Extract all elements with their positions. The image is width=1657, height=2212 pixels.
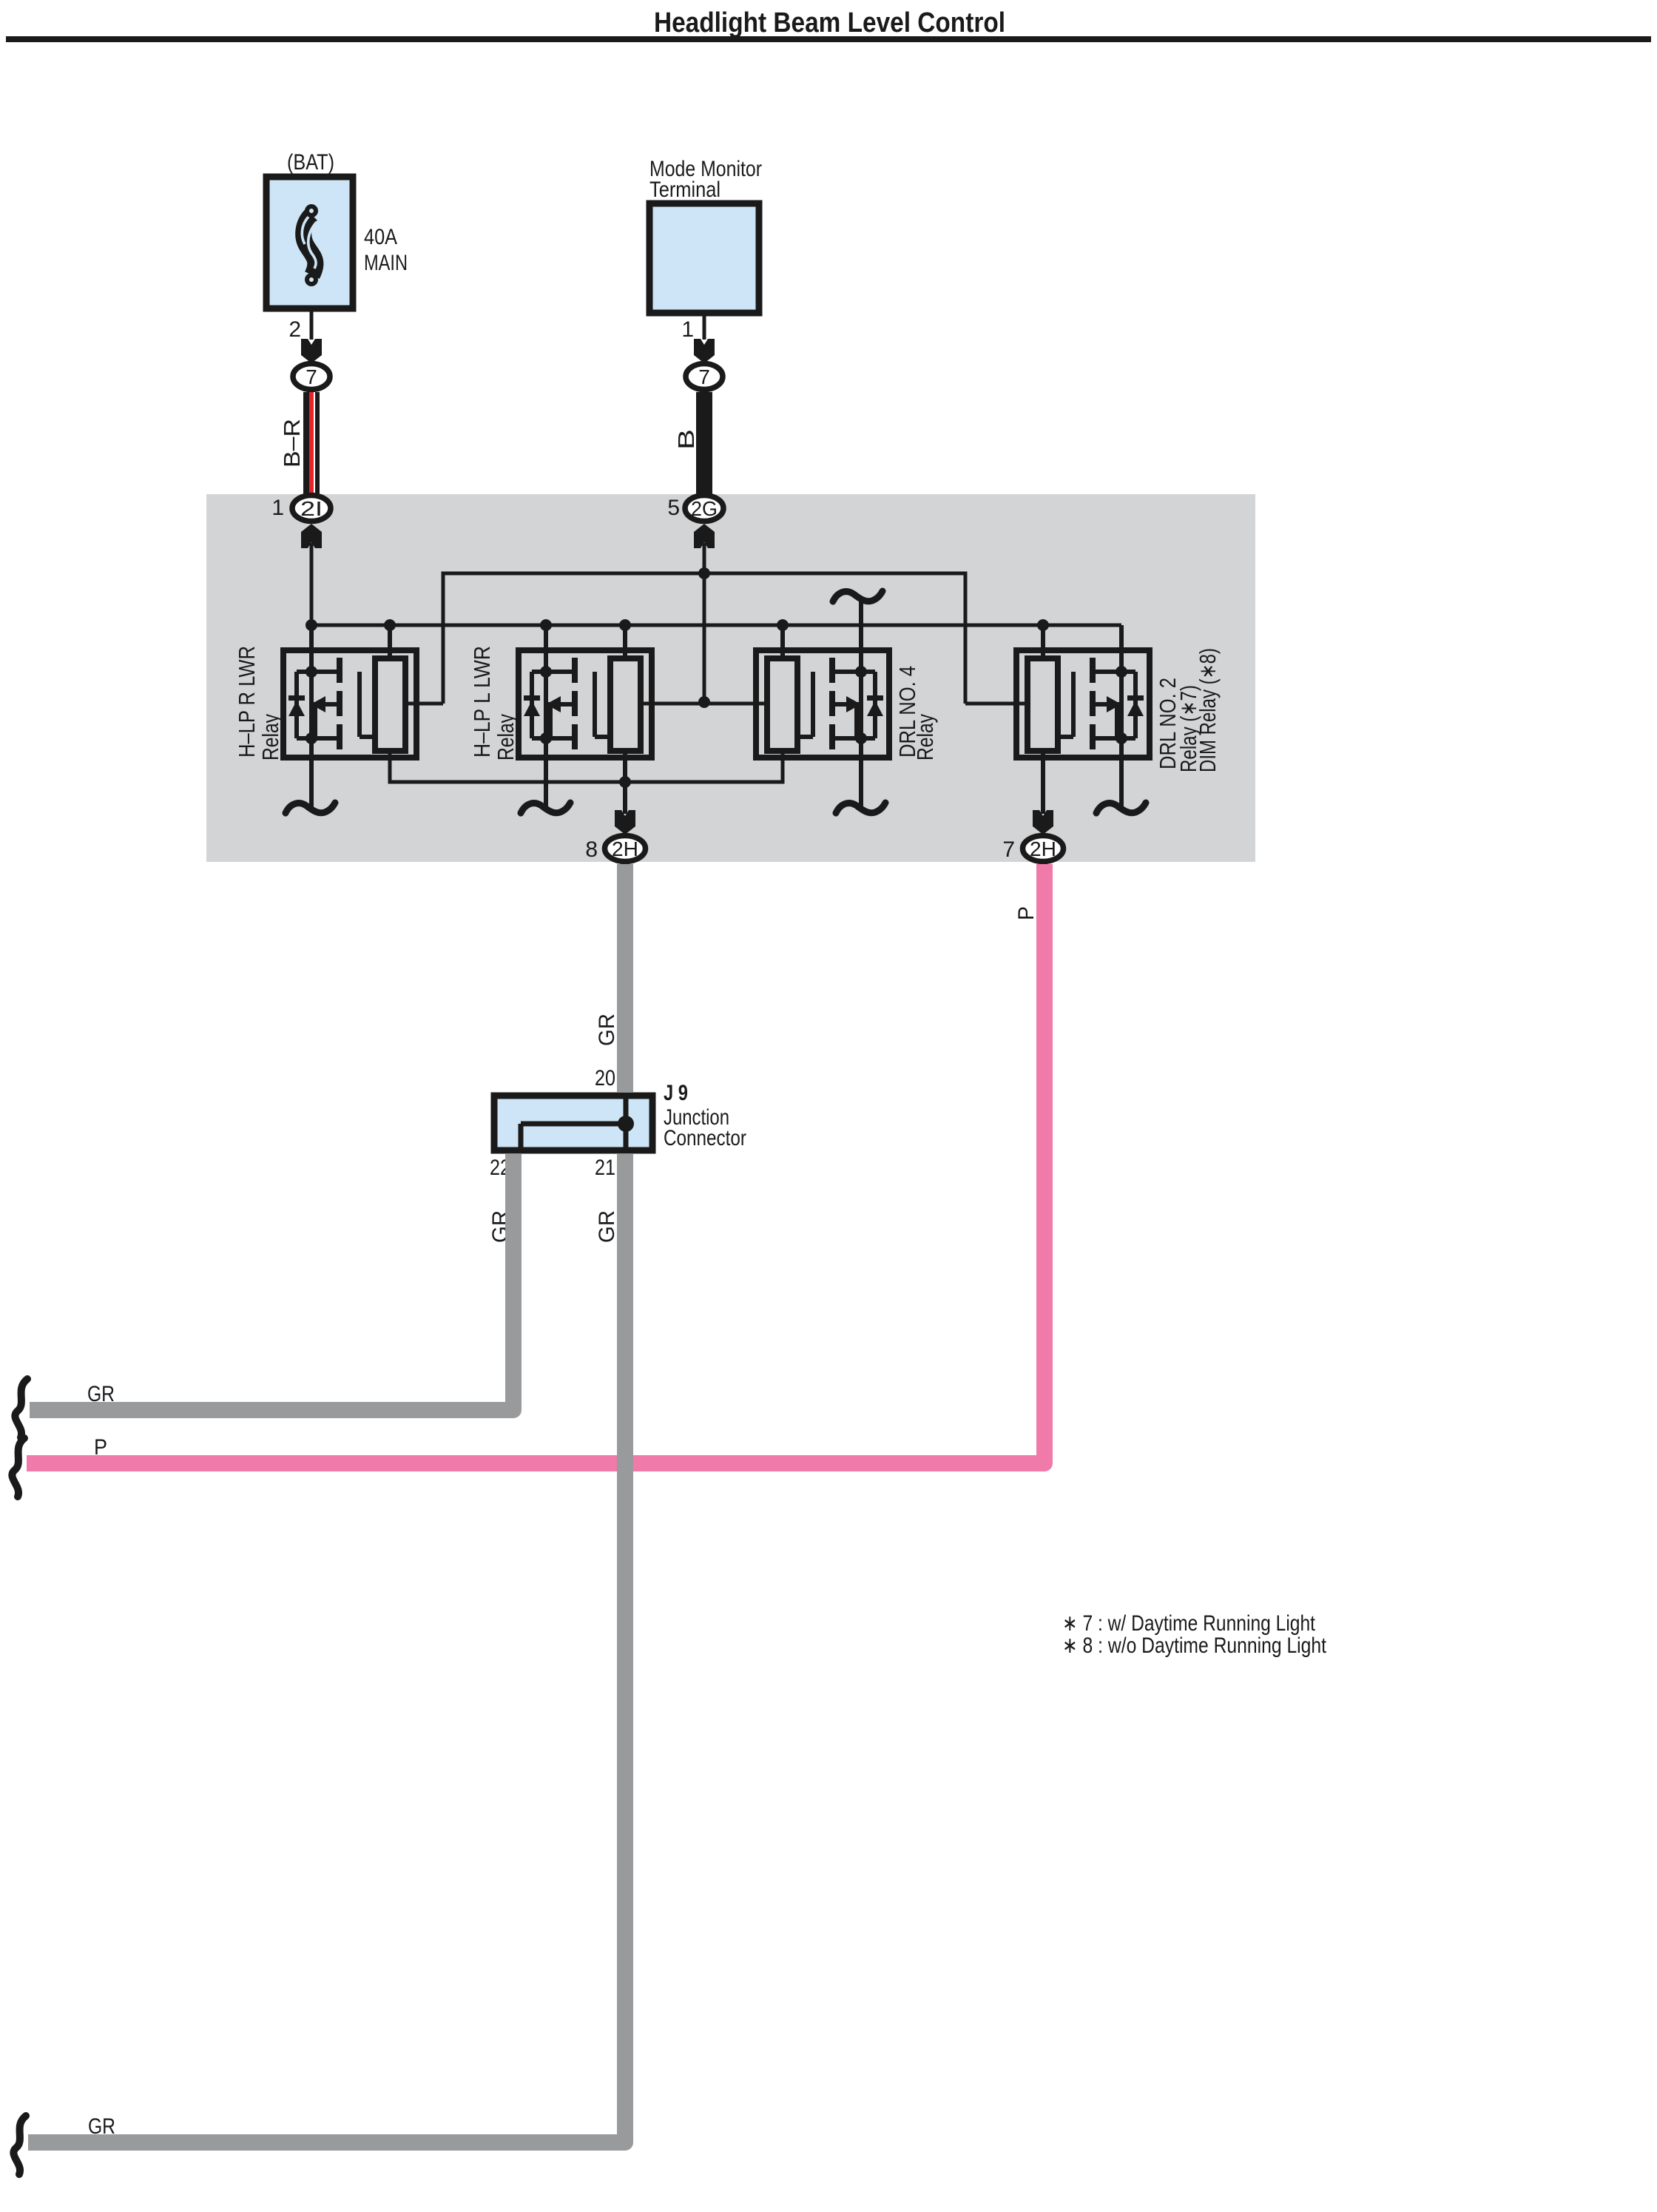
svg-text:P: P xyxy=(1014,906,1039,920)
svg-text:Relay: Relay xyxy=(257,714,283,761)
relay4 diode branch xyxy=(1133,672,1138,738)
J9 internal bus xyxy=(624,1096,629,1150)
svg-text:Terminal: Terminal xyxy=(649,178,720,202)
resistor relay2 coil xyxy=(610,658,641,751)
svg-text:∗ 7 : w/ Daytime Running Light: ∗ 7 : w/ Daytime Running Light xyxy=(1062,1611,1316,1636)
wire riser to relay1 resistor xyxy=(405,702,443,706)
node relay4 dots xyxy=(1116,666,1127,678)
svg-text:7: 7 xyxy=(698,365,710,388)
wire resistor top xyxy=(623,625,627,658)
relay4 transistor drain/source bars xyxy=(1093,670,1135,674)
mode monitor terminal box xyxy=(649,203,759,313)
svg-text:Headlight Beam Level Control: Headlight Beam Level Control xyxy=(654,7,1005,38)
resistor relay4 coil xyxy=(1027,658,1058,751)
junction connector J9 box xyxy=(494,1096,652,1150)
break squiggle relay1 xyxy=(286,803,335,813)
relay H-LP R LWR box xyxy=(283,625,416,811)
relay3 mosfet arrow xyxy=(846,696,861,712)
connector oval 2H (pin 7) xyxy=(1023,836,1064,862)
svg-text:H–LP R LWR: H–LP R LWR xyxy=(234,646,260,758)
svg-text:Relay: Relay xyxy=(912,714,938,761)
resistor relay1 coil xyxy=(375,658,405,751)
break squiggle P left xyxy=(12,1438,24,1497)
wire drop to relay4 resistor xyxy=(965,702,1027,706)
fuse 40A MAIN box xyxy=(266,177,353,308)
svg-text:Connector: Connector xyxy=(664,1126,746,1150)
relay3 gate xyxy=(811,672,815,737)
wire fuse pin 2 xyxy=(310,308,314,340)
connector oval 7 (mode monitor) xyxy=(686,364,723,390)
break squiggle relay3 bottom xyxy=(836,803,885,813)
connector oval 2G xyxy=(685,496,723,522)
relay2 source arrow wire xyxy=(558,702,575,707)
relay4 diode xyxy=(1127,701,1144,716)
svg-text:GR: GR xyxy=(595,1014,619,1046)
relay3 source arrow wire xyxy=(832,702,848,707)
svg-text:2I: 2I xyxy=(300,497,323,520)
wire GR from 2H pin8 to J9 pin 20 xyxy=(617,864,633,1092)
svg-text:MAIN: MAIN xyxy=(364,251,408,275)
node J9 junction xyxy=(618,1116,634,1132)
relay DRL NO. 2 box xyxy=(1016,625,1150,814)
wire resistor top xyxy=(780,625,785,658)
wire relay2 to relay3 gate link xyxy=(641,702,767,706)
relay3 diode branch xyxy=(873,672,877,738)
relay3 transistor channel xyxy=(829,658,835,683)
wire resistor top xyxy=(388,625,392,658)
title rule xyxy=(6,36,1651,42)
arrow up from 2G xyxy=(694,524,715,548)
node bus junctions xyxy=(306,619,317,631)
svg-text:B–R: B–R xyxy=(279,419,305,468)
svg-text:GR: GR xyxy=(87,1382,115,1406)
svg-text:GR: GR xyxy=(595,1210,619,1243)
connector oval 2I xyxy=(292,496,331,522)
svg-text:(BAT): (BAT) xyxy=(287,150,334,175)
relay4 transistor channel xyxy=(1090,658,1096,683)
wire lower bus xyxy=(390,751,783,782)
relay2 mosfet arrow xyxy=(546,696,561,712)
svg-text:2H: 2H xyxy=(1030,837,1056,860)
arrow down to 2H (pin 8) xyxy=(615,810,635,834)
wire P (pink) from 2H pin7 xyxy=(27,864,1045,1463)
break squiggle relay4 xyxy=(1096,803,1146,813)
relay2 gate xyxy=(593,672,597,737)
arrow down to connector 7 xyxy=(301,339,322,363)
node relay3 dots xyxy=(855,666,867,678)
break squiggle GR left xyxy=(15,1379,27,1437)
wire from 2G down xyxy=(703,543,706,702)
svg-text:8: 8 xyxy=(585,837,598,862)
relay1 transistor drain/source bars xyxy=(297,670,340,674)
relay2 diode branch xyxy=(530,672,534,738)
wire mode monitor pin 1 xyxy=(703,313,706,340)
wire main bus xyxy=(311,624,1121,627)
wire relay2 main line xyxy=(544,625,548,811)
svg-text:21: 21 xyxy=(595,1156,615,1180)
fuse element symbol xyxy=(302,206,317,284)
break squiggle relay2 xyxy=(521,803,570,813)
relay1 diode branch xyxy=(294,672,299,738)
svg-text:2: 2 xyxy=(288,317,301,342)
wire relay1 main line xyxy=(309,625,314,811)
svg-text:DIM Relay (∗8): DIM Relay (∗8) xyxy=(1195,648,1221,772)
relay3 diode xyxy=(867,701,883,716)
break squiggle relay3 top xyxy=(833,591,883,601)
svg-text:5: 5 xyxy=(667,496,680,520)
arrow down to 2H (pin 7) xyxy=(1033,810,1053,834)
wire resistor top xyxy=(1041,625,1045,658)
relay H-LP L LWR box xyxy=(519,625,652,814)
relay1 transistor channel xyxy=(337,658,342,683)
relay4 mosfet arrow xyxy=(1107,696,1121,712)
relay4 source arrow wire xyxy=(1093,702,1109,707)
wire relay3 main line xyxy=(859,601,863,811)
relay assembly shaded box xyxy=(206,494,1255,862)
wire resistor bottom to 2H xyxy=(1041,751,1045,814)
svg-text:7: 7 xyxy=(306,365,317,388)
svg-text:∗ 8 : w/o Daytime Running Ligh: ∗ 8 : w/o Daytime Running Light xyxy=(1062,1633,1327,1658)
relay2 diode xyxy=(524,701,540,716)
relay DRL NO. 4 box xyxy=(756,601,889,811)
arrow down to connector 7 xyxy=(694,339,715,363)
wire GR from J9 pin 21 xyxy=(28,1154,625,2142)
relay2 transistor drain/source bars xyxy=(532,670,575,674)
svg-text:J 9: J 9 xyxy=(664,1081,688,1105)
relay1 source arrow wire xyxy=(323,702,340,707)
break squiggle GR bottom xyxy=(13,2116,26,2174)
svg-text:1: 1 xyxy=(681,317,694,342)
wire GR from J9 pin 22 xyxy=(30,1154,513,1410)
svg-text:H–LP L LWR: H–LP L LWR xyxy=(469,646,495,758)
connector oval 7 (fuse) xyxy=(293,364,330,390)
svg-text:1: 1 xyxy=(271,496,284,520)
svg-text:20: 20 xyxy=(595,1066,615,1090)
resistor relay3 coil xyxy=(767,658,797,751)
svg-text:40A: 40A xyxy=(364,225,397,249)
svg-text:2G: 2G xyxy=(691,497,718,520)
svg-text:B: B xyxy=(673,429,699,450)
node relay1 dots xyxy=(306,666,317,678)
relay1 diode xyxy=(288,701,305,716)
svg-text:7: 7 xyxy=(1002,837,1015,862)
relay4 gate xyxy=(1071,672,1076,737)
wire resistor bottom to 2H xyxy=(623,751,627,814)
wire B-R (black with red stripe) xyxy=(303,392,320,493)
svg-text:Relay: Relay xyxy=(493,714,519,761)
arrow up from 2I into relay box xyxy=(301,524,322,548)
relay1 gate xyxy=(357,672,362,737)
relay2 transistor channel xyxy=(572,658,578,683)
node junction 2G lower xyxy=(698,696,710,708)
svg-text:GR: GR xyxy=(88,2114,115,2139)
relay1 mosfet arrow xyxy=(311,696,325,712)
node junction 2G upper bus xyxy=(698,567,710,579)
wire upper bus xyxy=(443,573,965,704)
wire relay4 main line xyxy=(1119,625,1124,811)
wire from 2I to bus xyxy=(310,543,314,625)
node junction lower bus xyxy=(619,776,631,788)
connector oval 2H (pin 8) xyxy=(605,836,646,862)
svg-text:P: P xyxy=(94,1435,107,1460)
svg-text:2H: 2H xyxy=(612,837,638,860)
relay3 transistor drain/source bars xyxy=(832,670,875,674)
wire B (black) xyxy=(696,392,712,493)
node relay2 dots xyxy=(540,666,552,678)
